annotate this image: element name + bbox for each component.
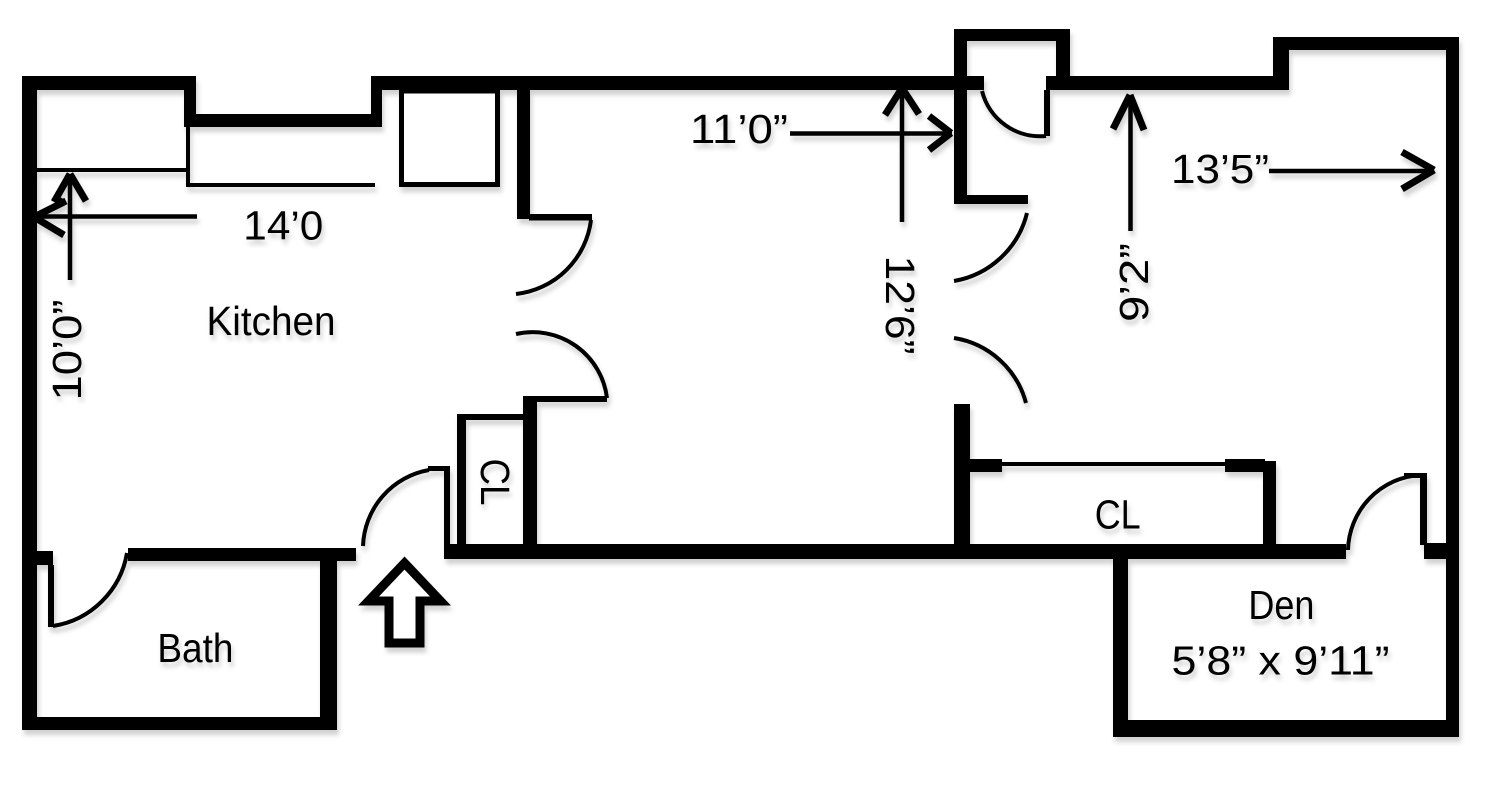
svg-text:9’2”: 9’2” (1111, 243, 1157, 322)
svg-text:10’0”: 10’0” (44, 300, 90, 401)
svg-text:Kitchen: Kitchen (207, 298, 336, 344)
svg-text:5’8” x 9’11”: 5’8” x 9’11” (1172, 638, 1390, 684)
svg-text:14’0: 14’0 (243, 202, 323, 248)
svg-text:Bath: Bath (157, 625, 233, 671)
svg-text:12’6”: 12’6” (877, 256, 923, 355)
svg-text:Den: Den (1248, 582, 1314, 628)
svg-text:CL: CL (472, 459, 518, 506)
svg-text:13’5”: 13’5” (1171, 146, 1269, 192)
svg-text:CL: CL (1095, 492, 1141, 538)
svg-text:11’0”: 11’0” (690, 106, 788, 152)
